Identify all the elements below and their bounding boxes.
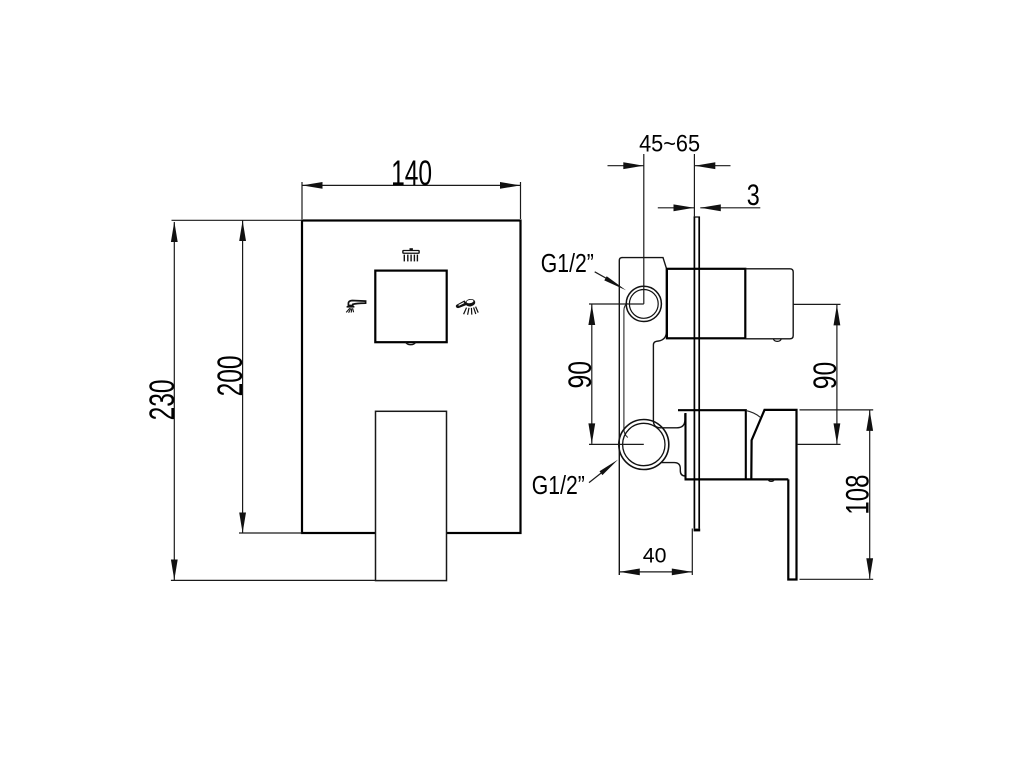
dimension 200 arrow bottom bbox=[239, 513, 246, 534]
diverter square button bbox=[375, 271, 446, 343]
dimension 45~65 line right bbox=[695, 165, 731, 167]
wall plate side view front line bbox=[693, 217, 695, 529]
dimension 230 arrow top bbox=[171, 222, 178, 243]
40 arrow right bbox=[672, 569, 693, 576]
wall plate side view back line bbox=[698, 217, 700, 529]
lever handle side view bbox=[751, 410, 796, 580]
dimension 3 arrow right bbox=[700, 204, 721, 211]
svg-text:3: 3 bbox=[747, 179, 760, 212]
upper housing retainer bump bbox=[773, 339, 781, 342]
dimension 230 top extension line bbox=[172, 219, 303, 221]
108 arrow top bbox=[866, 410, 873, 431]
handle cap arc bbox=[746, 411, 760, 418]
svg-text:G1/2”: G1/2” bbox=[532, 470, 585, 500]
lower cartridge sleeve (thick) bbox=[678, 410, 746, 479]
dimension 140 line bbox=[302, 184, 521, 186]
overhead shower icon bbox=[402, 248, 420, 261]
right 90 top extension line bbox=[793, 303, 840, 305]
dimension 3 line left bbox=[658, 207, 694, 209]
108 dimension line bbox=[869, 410, 871, 578]
svg-text:200: 200 bbox=[211, 355, 250, 396]
left 90 arrow top bbox=[588, 305, 595, 326]
wall plate top cap bbox=[694, 216, 700, 218]
dimension 200 line bbox=[242, 221, 244, 534]
svg-text:90: 90 bbox=[562, 361, 598, 389]
lever handle front view bbox=[376, 411, 447, 580]
right 90 arrow top bbox=[834, 305, 841, 326]
handle retainer notch bbox=[768, 479, 774, 481]
dimension 45~65 line left bbox=[608, 165, 644, 167]
dimension 140 extension line right bbox=[520, 182, 522, 219]
dimension 200 arrow top bbox=[239, 221, 246, 242]
108 bottom extension line bbox=[800, 578, 874, 580]
G1/2 top leader line bbox=[595, 272, 612, 282]
G1/2 bottom leader arrow bbox=[600, 460, 619, 476]
upper housing sleeve (thin, right of wall) bbox=[745, 269, 793, 339]
dimension 230 bottom extension line bbox=[171, 579, 375, 581]
dimension 45~65 arrow left bbox=[623, 162, 644, 169]
svg-text:140: 140 bbox=[391, 154, 432, 193]
right 90 bottom extension line bbox=[797, 443, 841, 445]
svg-text:40: 40 bbox=[643, 543, 667, 567]
right 90 dimension line bbox=[836, 305, 838, 444]
108 arrow bottom bbox=[866, 558, 873, 579]
dimension 140 arrow left bbox=[302, 182, 323, 189]
left 90 arrow bottom bbox=[588, 423, 595, 444]
40 dimension line bbox=[619, 571, 692, 573]
left 90 dimension line bbox=[591, 305, 593, 444]
dimension 140 extension line left bbox=[301, 182, 303, 219]
dimension 3 arrow left bbox=[674, 204, 695, 211]
valve body left edge bbox=[619, 258, 622, 575]
dimension 45~65 wall line extension bbox=[693, 154, 695, 217]
dimension 3 line right bbox=[700, 207, 760, 209]
40 arrow left bbox=[619, 569, 640, 576]
dimension 140 arrow right bbox=[500, 182, 521, 189]
bottom port circle inner bbox=[623, 423, 665, 465]
spout icon (left of button) bbox=[346, 301, 365, 313]
dimension 230 arrow bottom bbox=[171, 560, 178, 581]
right 90 arrow bottom bbox=[834, 423, 841, 444]
bottom port circle outer bbox=[619, 420, 669, 470]
40 right extension line bbox=[691, 529, 693, 576]
left 90 bottom extension line bbox=[589, 443, 644, 445]
svg-text:G1/2”: G1/2” bbox=[541, 248, 594, 278]
top port circle outer bbox=[626, 286, 661, 321]
upper cartridge housing (thick) bbox=[667, 269, 745, 339]
hand shower icon (right of button) bbox=[456, 298, 478, 315]
dimension 200 bottom extension line bbox=[239, 532, 302, 534]
dimension 45~65 center line through top port bbox=[643, 154, 645, 304]
wall plate bottom cap bbox=[694, 529, 701, 532]
valve body waist inner line bbox=[624, 304, 628, 438]
G1/2 top leader arrow bbox=[604, 276, 626, 290]
diverter knob below square bbox=[406, 342, 416, 344]
svg-text:108: 108 bbox=[840, 475, 876, 515]
svg-text:230: 230 bbox=[143, 379, 182, 420]
svg-text:45~65: 45~65 bbox=[639, 131, 700, 158]
svg-text:90: 90 bbox=[807, 362, 843, 390]
108 top extension line bbox=[800, 409, 874, 411]
wall plate front view bbox=[302, 221, 521, 534]
left 90 top extension line bbox=[589, 303, 644, 305]
valve body neck lower contour bbox=[662, 463, 686, 476]
valve body outline bbox=[622, 258, 685, 428]
top port circle inner bbox=[629, 290, 658, 319]
G1/2 bottom leader line bbox=[589, 470, 605, 483]
dimension 45~65 arrow right bbox=[695, 162, 716, 169]
sleeve / handle bottom edge (thick) bbox=[685, 478, 789, 480]
dimension 230 line bbox=[173, 222, 175, 580]
